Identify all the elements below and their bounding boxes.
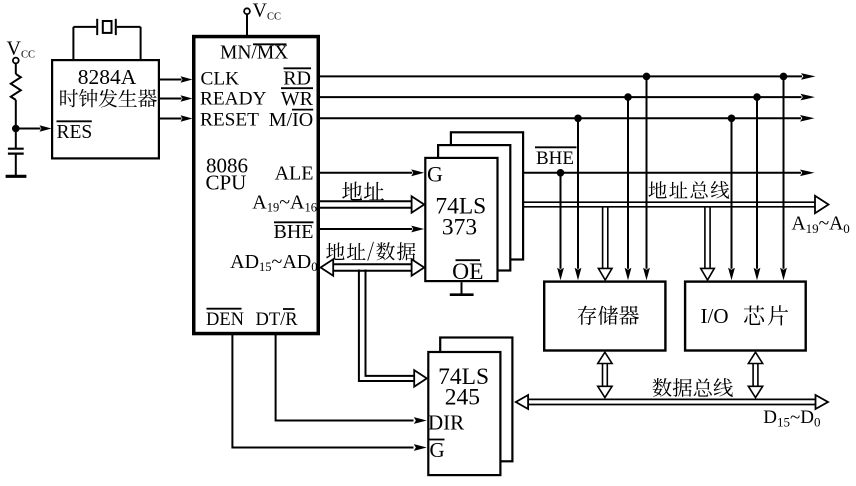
- svg-text:AD15~AD0: AD15~AD0: [230, 251, 317, 274]
- svg-text:WR: WR: [281, 88, 314, 110]
- svg-text:DIR: DIR: [428, 410, 464, 434]
- svg-text:G: G: [427, 162, 443, 187]
- svg-text:READY: READY: [200, 89, 266, 110]
- svg-text:RESET: RESET: [200, 110, 259, 131]
- svg-text:MN/MX: MN/MX: [220, 43, 288, 64]
- svg-text:G: G: [430, 438, 445, 462]
- svg-text:DT/R: DT/R: [256, 310, 299, 330]
- svg-text:245: 245: [445, 384, 480, 410]
- svg-text:RD: RD: [283, 68, 311, 90]
- svg-text:A19~A0: A19~A0: [792, 213, 850, 236]
- svg-text:D15~D0: D15~D0: [763, 407, 820, 430]
- svg-text:CLK: CLK: [201, 69, 240, 90]
- svg-text:BHE: BHE: [274, 221, 314, 243]
- svg-text:RES: RES: [57, 122, 93, 143]
- svg-text:BHE: BHE: [536, 148, 574, 169]
- svg-text:OE: OE: [452, 259, 483, 285]
- svg-text:ALE: ALE: [275, 163, 314, 185]
- svg-text:8284A: 8284A: [78, 65, 137, 89]
- svg-text:CPU: CPU: [206, 171, 247, 195]
- svg-text:M/IO: M/IO: [269, 109, 313, 131]
- svg-text:DEN: DEN: [206, 310, 244, 330]
- svg-text:I/O: I/O: [701, 304, 729, 328]
- svg-text:373: 373: [442, 214, 477, 240]
